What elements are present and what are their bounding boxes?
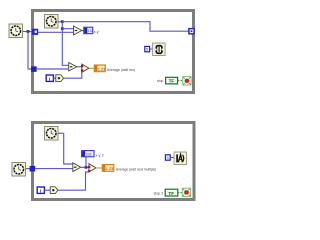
loop condition terminal loop 1 xyxy=(183,77,191,85)
wire junction outside loop 1 xyxy=(27,30,30,33)
increment +1 function loop 2 xyxy=(50,187,58,194)
svg-text:1.23: 1.23 xyxy=(98,67,105,71)
increment +1 function loop 1 xyxy=(56,75,64,82)
tick count (ms) U2 inside loop 1 xyxy=(45,15,59,29)
svg-text:x-y: x-y xyxy=(94,30,99,34)
loop condition terminal loop 2 xyxy=(182,188,190,196)
svg-text:132: 132 xyxy=(86,153,92,157)
tunnel B on loop 1 left border (solid) xyxy=(31,66,37,72)
svg-text:TF: TF xyxy=(169,79,175,84)
svg-text:TF: TF xyxy=(168,191,174,196)
coercion dot top divide 1 xyxy=(81,65,83,67)
coercion dot bottom divide 1 xyxy=(81,69,83,71)
svg-text:132: 132 xyxy=(88,29,94,33)
wire: i 2 to increment 2 xyxy=(44,189,50,191)
tunnel D on loop 2 left border (solid) xyxy=(30,166,36,172)
wire: tick count 2 out to junction xyxy=(58,21,63,23)
wire: junction 2 down to subtract 2 x input xyxy=(62,29,69,66)
coercion dot bottom divide 2 xyxy=(88,170,90,172)
wire: divide 1 to average indicator (orange) xyxy=(89,67,95,69)
indicator terminal Average (wait ms) xyxy=(94,65,105,72)
boolean control terminal stop 2 (TF) xyxy=(165,189,178,196)
wire: tick count 1 to tunnel A xyxy=(22,31,33,33)
svg-text:Average (wait next multiple): Average (wait next multiple) xyxy=(116,167,156,171)
tick count (ms) U4 inside loop 2 xyxy=(45,127,59,141)
boolean wire stop to condition terminal xyxy=(178,80,183,82)
svg-text:stop 2: stop 2 xyxy=(154,192,164,196)
wire: junction down to subtract 1 x input xyxy=(61,22,63,29)
numeric constant 5 loop 2 xyxy=(165,155,170,160)
divide function 1 xyxy=(82,64,89,72)
wire: increment 2 to divide 2 bottom input xyxy=(58,172,89,190)
wire: tick count 4 down to subtract 3 x input xyxy=(58,133,73,164)
wait until next ms multiple function loop 2 xyxy=(174,152,187,165)
wire: i to increment xyxy=(53,77,56,79)
wire junction to x-y 2 indicator xyxy=(85,166,88,169)
wire: junction up to x-y 2 indicator xyxy=(85,157,87,168)
wire junction top xyxy=(61,20,64,23)
wire: subtract 3 output to junction xyxy=(81,166,89,168)
wire: tunnel A to subtract 1 y input xyxy=(38,31,74,33)
divide function 2 xyxy=(89,164,96,172)
numeric constant for wait loop 1 xyxy=(145,46,150,51)
tick count (ms) U3 outside loop 2 xyxy=(12,163,26,177)
while loop 2 border xyxy=(33,123,195,200)
wire: tunnel D to subtract 3 y input xyxy=(35,168,73,170)
subtract function 1 xyxy=(74,26,82,35)
indicator terminal Average (wait next multiple) xyxy=(102,165,114,172)
iteration terminal i loop 1 xyxy=(46,75,53,81)
indicator terminal x-y 2 xyxy=(82,151,94,157)
iteration terminal i loop 2 xyxy=(37,187,44,193)
tunnel A on loop 1 left border xyxy=(32,29,38,35)
wire: increment to divide 1 bottom input xyxy=(64,72,82,79)
wire: tunnel B to subtract 2 y input xyxy=(37,68,69,70)
svg-text:Average (wait ms): Average (wait ms) xyxy=(107,68,135,72)
boolean control terminal stop (TF) xyxy=(166,77,178,84)
tunnel C on loop 1 right border xyxy=(189,29,194,34)
wire: constant 5 to wait until next ms multiple xyxy=(170,157,174,159)
wire: constant to wait function xyxy=(150,48,153,50)
svg-text:x-y 2: x-y 2 xyxy=(95,153,103,157)
indicator terminal x-y xyxy=(84,27,93,34)
subtract function 2 xyxy=(69,63,77,72)
wire: subtract 1 to x-y indicator xyxy=(82,30,84,32)
wire: junction 2 to subtract 1 xyxy=(62,28,74,30)
tick count (ms) U1 outside loop 1 xyxy=(9,24,23,38)
coercion dot top divide 2 xyxy=(88,166,90,168)
wire: long run to right tunnel C xyxy=(62,22,189,32)
wire: tick count 3 to tunnel D xyxy=(25,168,31,170)
svg-text:1.23: 1.23 xyxy=(106,167,113,171)
boolean wire stop 2 to condition terminal 2 xyxy=(178,192,183,194)
wire: divide 2 to average 2 indicator (orange) xyxy=(96,167,103,169)
wire junction 2 xyxy=(61,27,64,30)
svg-text:stop: stop xyxy=(157,79,163,83)
subtract function 3 xyxy=(73,163,81,172)
wire: subtract 2 to divide 1 xyxy=(77,66,82,68)
wait (ms) function loop 1 xyxy=(153,43,166,56)
while loop 1 border xyxy=(33,11,194,93)
wire: vertical down to lower tunnel B xyxy=(28,32,34,70)
